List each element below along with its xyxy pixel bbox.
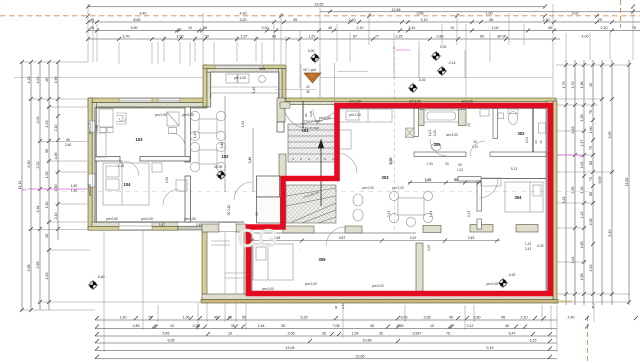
SECTION:DIMS_LEFT [22,62,58,310]
svg-text:45: 45 [501,315,505,319]
svg-text:2,32: 2,32 [36,162,40,169]
svg-text:1,70: 1,70 [571,82,575,89]
SECTION:WALLS [88,65,572,303]
svg-text:1,90: 1,90 [120,315,127,319]
svg-text:2,10: 2,10 [543,18,550,22]
svg-text:6: 6 [308,157,310,161]
svg-text:40,00: 40,00 [214,165,222,169]
svg-text:45: 45 [489,18,493,22]
svg-text:-0,02: -0,02 [508,273,516,277]
inner face porch [211,72,280,98]
unit2 bath sink [431,144,441,151]
svg-text:1,40: 1,40 [425,178,431,182]
svg-text:45: 45 [589,83,593,87]
dim line bottom row1 [95,319,557,321]
partition wall 103/104 [95,157,120,162]
svg-text:1,94: 1,94 [36,206,40,213]
corridor/304 wall horizontal [458,177,481,182]
svg-text:2,10: 2,10 [118,164,124,168]
svg-text:8,65: 8,65 [134,18,141,22]
inner face left wall [94,107,96,222]
dim line right col3 [583,60,585,305]
window bottom-left wall [119,222,152,229]
room303 chairs [389,191,398,200]
svg-text:22,65: 22,65 [315,3,324,7]
svg-text:5,25: 5,25 [301,315,308,319]
svg-text:1,96: 1,96 [580,82,584,89]
svg-text:85: 85 [589,192,593,196]
svg-text:90: 90 [534,140,538,144]
svg-text:45: 45 [539,140,543,144]
faint section dashed line across plan [62,191,592,193]
svg-text:35: 35 [231,324,235,328]
wall wc east [532,109,534,153]
svg-text:2,05: 2,05 [309,111,313,117]
red unit outline polygon [249,106,551,294]
svg-text:2,40: 2,40 [433,130,437,136]
svg-text:12,56: 12,56 [392,8,401,12]
dim line left col1 [21,62,23,310]
svg-text:pm 1,00: pm 1,00 [349,100,361,104]
svg-text:3,30: 3,30 [474,315,481,319]
unit2 wc toilet [509,112,518,125]
dim line top row1 22,65 [88,6,545,8]
window porch top slit [215,65,263,68]
magenta marker top [393,45,410,233]
svg-text:10,48: 10,48 [363,338,372,342]
unit2 bathtub [424,110,459,122]
window left wall upper [88,121,96,132]
svg-text:103: 103 [136,137,144,142]
svg-text:45: 45 [548,26,552,30]
svg-text:0,00: 0,00 [308,49,315,53]
svg-text:2,49: 2,49 [196,223,202,227]
svg-text:2,25: 2,25 [396,35,403,39]
svg-text:2,45: 2,45 [571,127,575,134]
survey mark +0,02 [408,83,418,93]
dim line left col4 [48,62,50,310]
304 west wall [477,181,482,211]
svg-text:11,85: 11,85 [625,178,629,187]
svg-text:90 2,10: 90 2,10 [227,204,231,215]
svg-text:2,10: 2,10 [601,26,608,30]
door arc corridor [337,153,357,173]
svg-text:1,00: 1,00 [589,127,593,134]
svg-text:50N: 50N [259,67,266,71]
dim line bottom row3 [95,335,557,337]
threshold strip [178,222,203,226]
svg-text:1,01: 1,01 [428,130,432,136]
dining102 chairs upper [190,111,199,120]
svg-text:CG: CG [237,223,280,253]
svg-text:2,05: 2,05 [193,324,200,328]
svg-text:6,15: 6,15 [530,338,537,342]
interior dim line row inside unit2 [252,240,500,242]
terrace step lines left of unit2 [225,272,246,274]
svg-text:75: 75 [148,315,152,319]
unit2 entry door from stair [313,109,337,133]
svg-text:85: 85 [589,161,593,165]
wall exterior left khaki strip [88,98,92,230]
svg-text:-0,02: -0,02 [536,244,543,248]
svg-text:1,50: 1,50 [54,185,58,192]
svg-text:13,04: 13,04 [286,346,295,350]
svg-text:2,40: 2,40 [568,315,575,319]
svg-text:2,10: 2,10 [457,168,463,172]
top extension verticals [88,4,633,97]
outdoor stair west wall [202,230,207,294]
svg-text:2,05: 2,05 [288,331,295,335]
svg-text:3,46: 3,46 [248,157,252,164]
svg-text:1,50: 1,50 [71,184,78,188]
room304 bed [505,182,543,212]
svg-text:1,00: 1,00 [486,11,493,15]
svg-text:2,10: 2,10 [421,18,428,22]
svg-text:VE 1 g/st: VE 1 g/st [303,68,316,72]
svg-text:102: 102 [222,154,230,159]
svg-text:2,43: 2,43 [387,211,391,217]
room303 armchairs [353,194,363,206]
wall bath piers top of unit2 [416,110,424,126]
svg-text:1,40: 1,40 [252,87,256,93]
svg-text:pm 0,00: pm 0,00 [319,116,331,120]
dining102 table lower [199,150,217,164]
wall stair west column [279,154,286,178]
svg-text:2,91: 2,91 [525,137,529,143]
door 104 [163,189,179,205]
SECTION:FIXTURES [96,72,546,280]
door swing arcs [124,109,498,246]
inner face of top wall left unit [95,106,207,108]
svg-text:75: 75 [446,331,450,335]
svg-text:2,10: 2,10 [349,18,356,22]
svg-text:90: 90 [334,305,338,309]
room104 bed [103,163,149,205]
benchmark orange triangle [303,68,321,94]
svg-text:8: 8 [324,157,326,161]
svg-text:1,87: 1,87 [159,223,165,227]
svg-text:3,41: 3,41 [409,26,416,30]
porch kitchen counter [211,72,280,93]
svg-text:2,49: 2,49 [45,121,49,128]
svg-text:pm 0,00: pm 0,00 [262,287,274,291]
svg-text:2,95: 2,95 [424,315,431,319]
svg-text:3,87: 3,87 [339,236,346,240]
wall exterior bottom-right khaki terrain strip [201,300,558,303]
wall exterior bottom-left khaki strip [88,226,178,230]
svg-text:pm 0,00: pm 0,00 [362,186,374,190]
svg-text:2,50: 2,50 [95,125,99,131]
svg-text:70: 70 [589,177,593,181]
survey mark -0,60 outside [88,280,98,290]
wall under red bottom-left leg [244,227,252,294]
svg-text:90: 90 [228,315,232,319]
svg-text:35: 35 [379,331,383,335]
svg-text:22,65: 22,65 [356,355,365,359]
wall exterior left hatch strip [92,103,96,230]
red outline inner hairline [249,106,551,294]
svg-text:80 30: 80 30 [498,35,507,39]
svg-text:7,08: 7,08 [333,324,340,328]
svg-text:45: 45 [214,315,218,319]
svg-text:45: 45 [306,90,310,94]
svg-text:7: 7 [316,157,318,161]
svg-text:pm 2,20: pm 2,20 [392,186,404,190]
svg-text:1,00: 1,00 [492,26,499,30]
svg-text:2,80: 2,80 [437,35,444,39]
svg-text:4,93: 4,93 [427,245,431,251]
svg-text:10: 10 [188,26,192,30]
survey mark above porch [310,53,320,63]
partition stair west wall lower [277,122,284,132]
partition wall kitchen103/dining102 [95,107,284,223]
dim line bottom row5 [95,350,557,352]
svg-text:90: 90 [445,162,449,166]
svg-text:-0,60: -0,60 [97,275,105,279]
svg-text:302: 302 [518,131,526,136]
dim line left col3 [39,62,41,310]
left extension horizontals [20,62,200,310]
room103 left cabinet [96,133,106,157]
door 102 to stairhall [234,182,252,200]
svg-text:pm 0,00: pm 0,00 [486,282,498,286]
svg-text:95: 95 [203,26,207,30]
interior room boundary thin lines left unit [95,72,546,294]
svg-text:303: 303 [382,175,390,180]
room304 wardrobe [481,178,501,186]
unit2 wc basin [480,109,489,116]
survey mark 0,00 [431,51,441,61]
dim line left col2 [30,62,32,310]
door 103 to 104 [124,161,139,176]
svg-text:2,10: 2,10 [521,315,528,319]
svg-text:9,24: 9,24 [562,197,566,204]
unit2 304 door [479,179,498,198]
svg-text:2,45: 2,45 [45,273,49,280]
svg-text:9,69: 9,69 [598,177,602,184]
svg-text:pm 0,60: pm 0,60 [182,113,194,117]
svg-text:50: 50 [480,35,484,39]
dining102 chairs lower [190,142,199,151]
svg-text:45: 45 [328,26,332,30]
dim line right col1 [565,60,567,305]
wall porch right [282,69,286,99]
svg-text:17st 17,6/28: 17st 17,6/28 [303,126,319,130]
svg-text:4,00: 4,00 [582,35,589,39]
survey mark -2,14 [437,66,447,76]
wall exterior bottom-right hatch [202,294,553,300]
svg-text:pm 1,00: pm 1,00 [349,113,361,117]
svg-text:35: 35 [322,331,326,335]
svg-text:3,65: 3,65 [417,11,424,15]
svg-text:45: 45 [591,305,595,309]
window top wall slit a [119,98,152,102]
svg-text:1,17: 1,17 [580,140,584,147]
svg-text:90: 90 [304,113,308,117]
svg-text:45: 45 [293,18,297,22]
wall between room305 and right room [416,243,423,294]
SECTION:DIMS_RIGHT [566,60,629,305]
svg-text:3,90: 3,90 [131,26,138,30]
dining102 table upper [199,119,217,133]
gray balcony outline above unit2 [14,50,553,102]
svg-text:pm 1,00: pm 1,00 [409,100,421,104]
svg-text:2,90: 2,90 [165,177,169,183]
stair tread numbers [292,157,334,161]
svg-text:0,00: 0,00 [440,45,447,49]
svg-text:pm 0,02: pm 0,02 [372,284,384,288]
svg-text:1,70: 1,70 [562,82,566,89]
svg-text:1,54: 1,54 [352,331,359,335]
svg-text:6,10: 6,10 [608,230,612,237]
svg-text:6,30: 6,30 [27,161,31,168]
dim line bottom row4 [95,342,557,344]
svg-text:304: 304 [515,195,523,200]
svg-text:5,45: 5,45 [163,331,170,335]
svg-text:1,57: 1,57 [309,35,316,39]
svg-text:3,02: 3,02 [572,11,579,15]
svg-text:45: 45 [370,324,374,328]
svg-text:55: 55 [242,315,246,319]
orange boundary dashed line [0,15,640,17]
svg-text:3,12: 3,12 [467,324,474,328]
inner face bottom wall left [95,221,244,223]
room303 dining table [398,198,424,215]
svg-text:10: 10 [228,331,232,335]
svg-text:2,40: 2,40 [65,143,72,147]
svg-text:pm 1,00: pm 1,00 [234,76,246,80]
wall stair west upper segment [277,98,285,122]
svg-text:pm 0,00: pm 0,00 [184,217,196,221]
svg-text:2,05: 2,05 [589,219,593,226]
svg-text:305: 305 [319,257,327,262]
svg-text:3,547: 3,547 [413,331,422,335]
svg-text:am 2,00: am 2,00 [446,133,458,137]
dim line bottom row2 [95,328,557,330]
wall exterior bottom-left hatch strip [92,222,178,226]
small dims inside rooms (smudge level) [165,121,543,251]
svg-text:90: 90 [454,178,458,182]
inner face right unit walls [337,108,546,110]
svg-text:9,40: 9,40 [140,11,147,15]
svg-text:2,55: 2,55 [397,324,404,328]
svg-text:9: 9 [332,157,334,161]
top dim texts [90,3,636,39]
bath west wall [414,109,419,137]
survey mark labels [97,45,516,279]
svg-text:50: 50 [205,35,209,39]
svg-text:1,00: 1,00 [54,153,58,160]
room103 armchair U [116,113,126,124]
svg-text:5: 5 [300,157,302,161]
svg-text:3,65: 3,65 [608,132,612,139]
svg-text:2,40: 2,40 [54,213,58,220]
dim line right col5 [601,60,603,305]
svg-text:1,43: 1,43 [525,242,531,246]
svg-text:2,10: 2,10 [54,125,58,132]
door gap bottom-left wall [219,222,236,231]
svg-text:45: 45 [90,26,94,30]
room305 bed sofa [253,244,293,280]
svg-text:1,22: 1,22 [580,212,584,219]
svg-text:35: 35 [281,324,285,328]
svg-text:-2,14: -2,14 [448,61,456,65]
svg-text:1,40: 1,40 [193,132,197,138]
svg-text:92: 92 [255,212,259,216]
door stairhall to 305 [326,227,345,246]
svg-text:1,32: 1,32 [580,187,584,194]
svg-text:4,30: 4,30 [240,11,247,15]
svg-text:104: 104 [124,182,132,187]
tall cabinet at red wall [339,130,352,149]
svg-text:pm 0,00: pm 0,00 [141,217,153,221]
corridor dim line [408,182,481,184]
svg-text:57: 57 [353,35,357,39]
stair landing with winder treads [286,185,336,223]
shower niche fixture [539,123,546,133]
dim line right col7 [628,60,630,305]
wall exterior top-left hatch strip [88,103,207,108]
svg-text:2,43: 2,43 [525,247,531,251]
svg-text:2,80: 2,80 [133,324,140,328]
left dim texts rotated [18,77,77,280]
right dim texts rotated [562,82,629,281]
top dimension ticks [86,5,635,42]
svg-text:1,50: 1,50 [45,202,49,209]
svg-text:1,25: 1,25 [45,172,49,179]
wall south of units window piers [202,224,219,232]
dim line right col4 [592,60,594,305]
svg-text:2,03: 2,03 [36,117,40,124]
small table room305 [299,249,301,251]
room103 wardrobe top-left [99,109,113,127]
svg-text:45: 45 [45,234,49,238]
svg-text:pm 0,90: pm 0,90 [155,113,167,117]
svg-text:2,10: 2,10 [357,26,364,30]
svg-text:2,41: 2,41 [341,303,345,309]
dim line top row4 [88,30,640,32]
svg-text:3,70: 3,70 [123,35,130,39]
svg-text:3,55: 3,55 [571,187,575,194]
svg-text:3,20: 3,20 [262,26,269,30]
svg-text:90: 90 [45,149,49,153]
svg-text:4: 4 [292,157,294,161]
svg-text:2,49: 2,49 [468,236,475,240]
cupboard blocks beside stair [257,176,280,197]
vent shaft [406,128,415,138]
wall exterior top-right run above red [286,98,556,101]
svg-text:3,95: 3,95 [27,265,31,272]
window slits [88,65,263,231]
right extension horizontals [556,65,630,302]
svg-text:9,15: 9,15 [487,346,494,350]
svg-text:40: 40 [306,85,310,89]
svg-text:1,55: 1,55 [580,274,584,281]
svg-text:5,13: 5,13 [511,167,517,171]
svg-text:2,52: 2,52 [589,265,593,272]
section marker pb magenta right [556,153,585,158]
svg-text:75: 75 [632,26,636,30]
svg-text:10: 10 [430,324,434,328]
svg-text:pb: pb [580,153,585,158]
SECTION:DIMS_TOP [88,7,640,39]
svg-text:pm 0,00: pm 0,00 [305,282,317,286]
svg-text:1,57: 1,57 [241,35,248,39]
entry hatch pier [280,102,290,108]
dim line right col6 [611,60,613,305]
svg-text:1,28: 1,28 [580,115,584,122]
entry door leaf and swing [302,101,304,128]
